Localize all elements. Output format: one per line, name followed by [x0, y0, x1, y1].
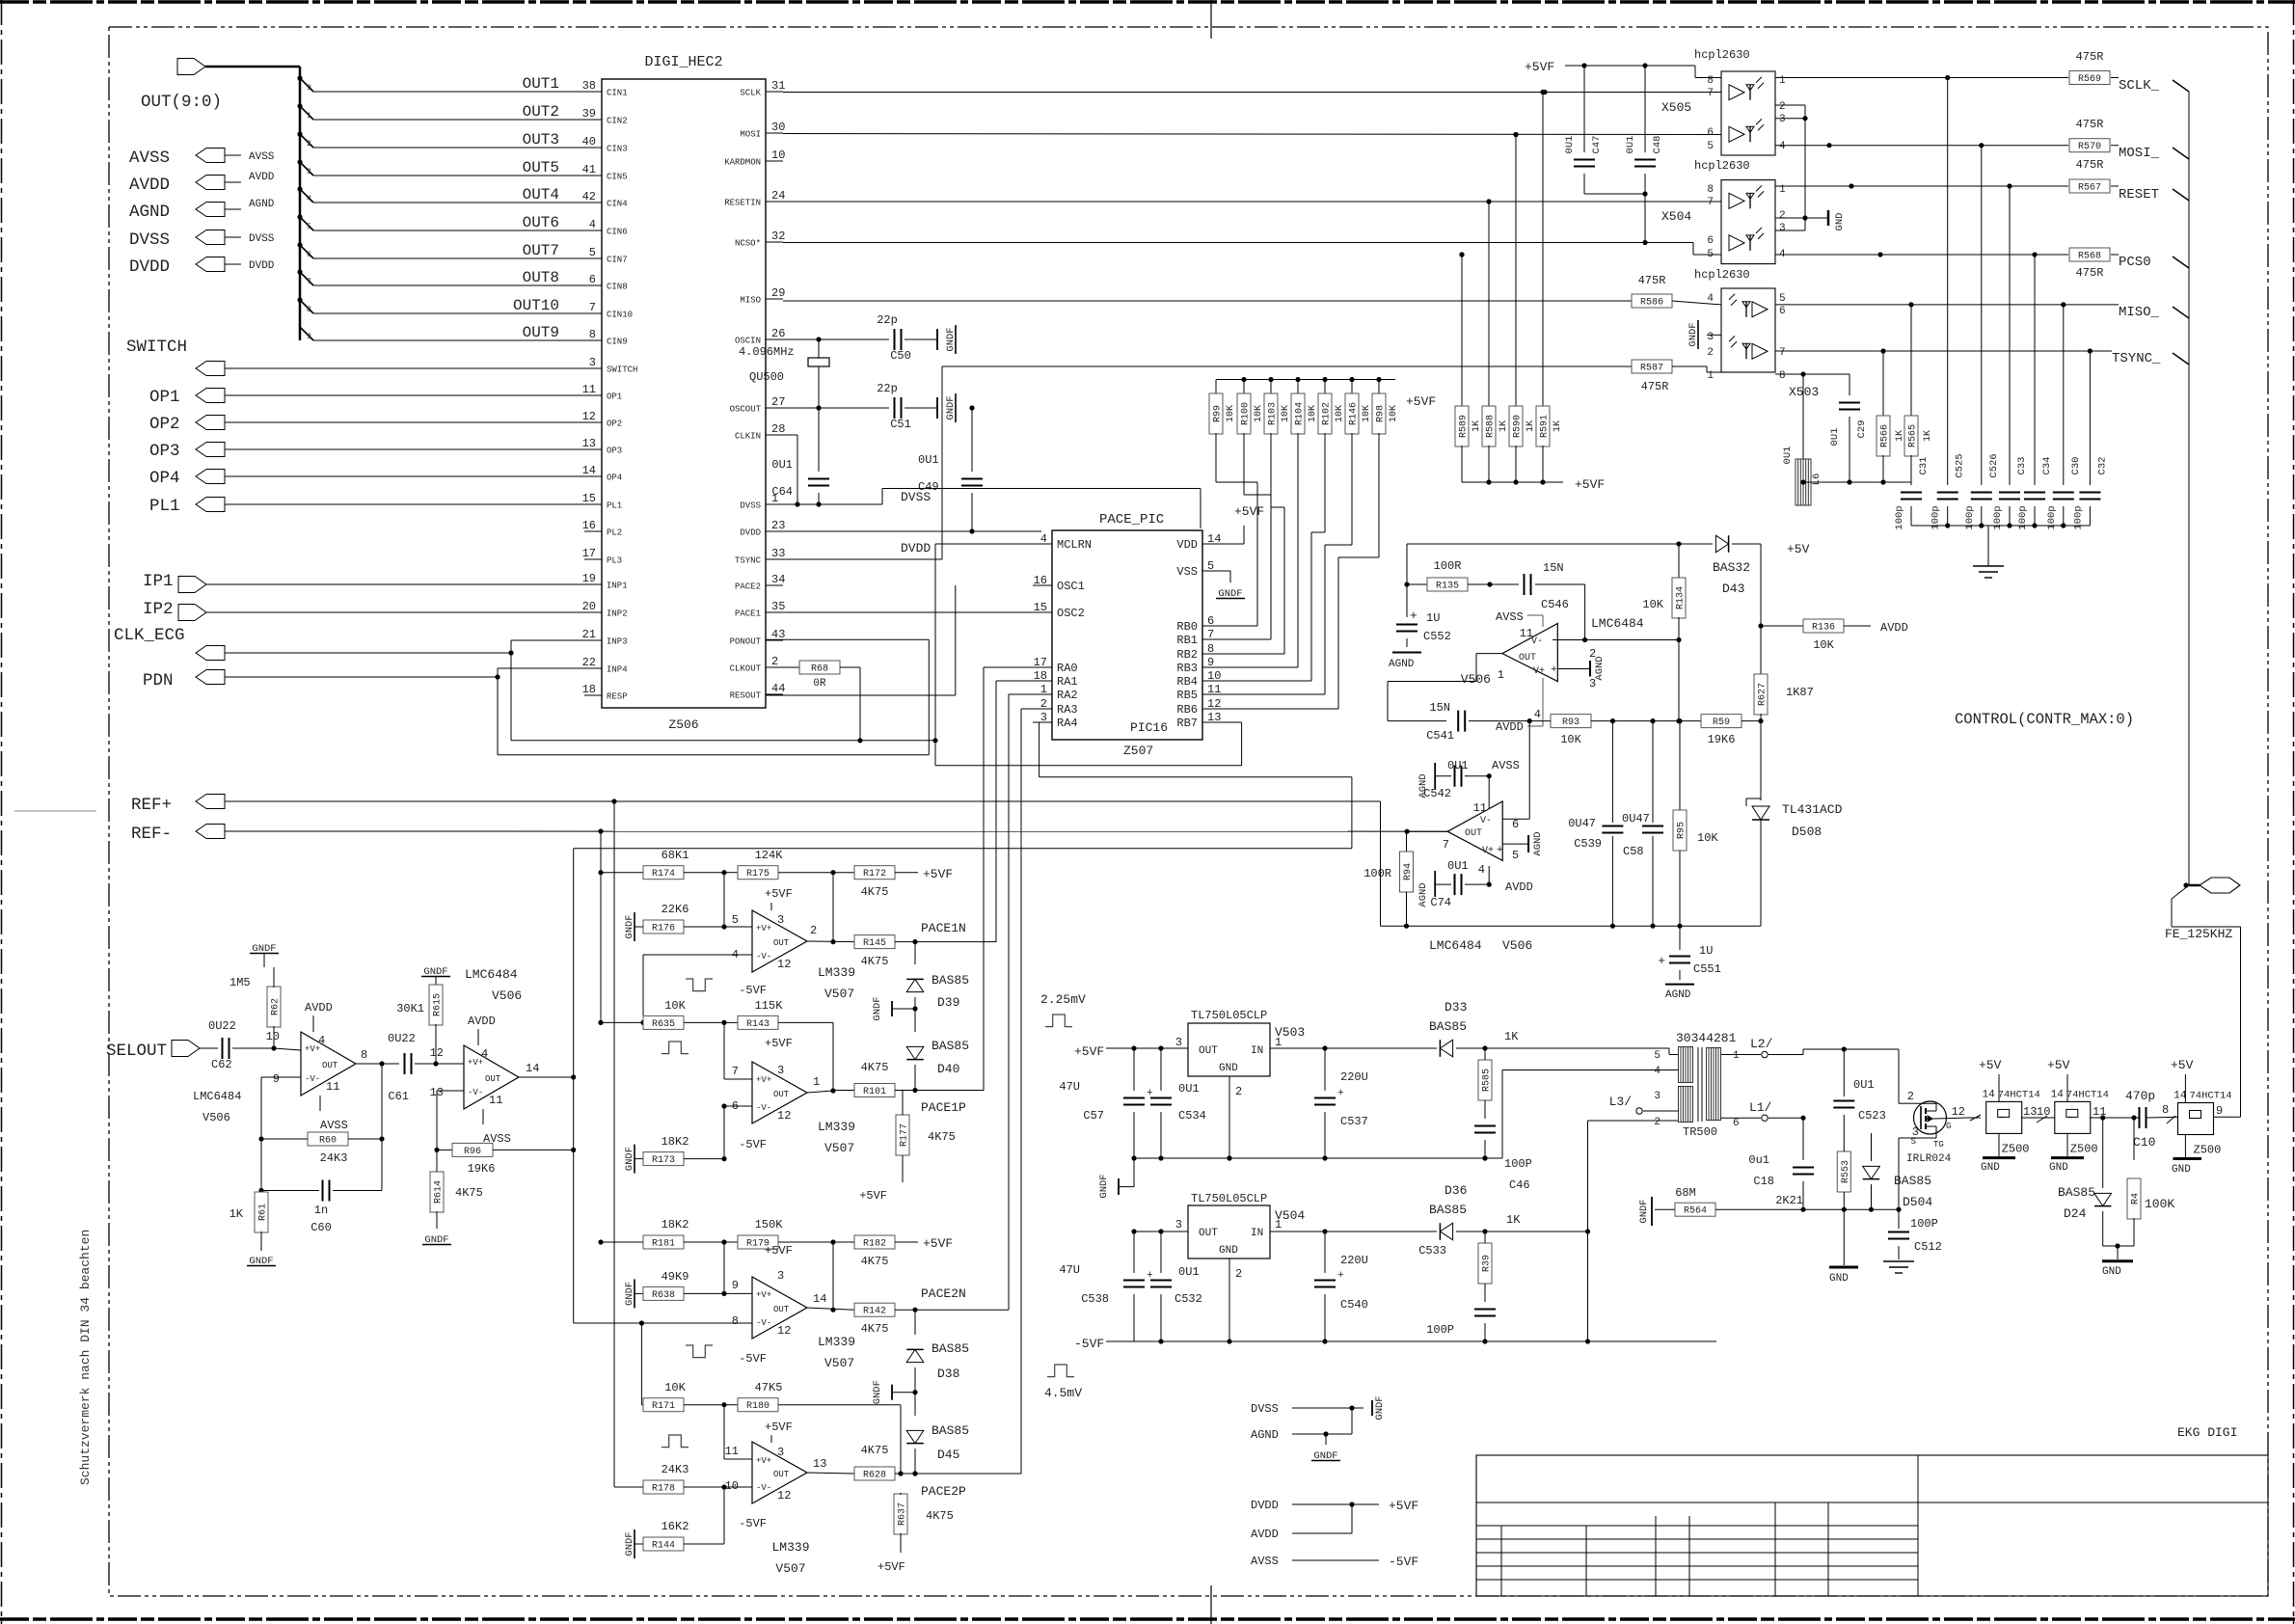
- svg-text:OUT4: OUT4: [523, 186, 559, 203]
- svg-text:AVSS: AVSS: [1496, 610, 1524, 624]
- wire DVDD net: [766, 531, 1041, 555]
- svg-text:30344281: 30344281: [1676, 1031, 1737, 1045]
- svg-text:PONOUT: PONOUT: [730, 637, 762, 647]
- wire gate a out: [2021, 1105, 2055, 1123]
- svg-text:R587: R587: [1640, 364, 1663, 374]
- svg-text:+: +: [1658, 954, 1665, 968]
- Z506 pin 10 KARDMON: [724, 149, 785, 168]
- svg-text:hcpl2630: hcpl2630: [1694, 48, 1750, 62]
- svg-text:RB4: RB4: [1176, 675, 1198, 689]
- svg-text:DVDD: DVDD: [1251, 1499, 1279, 1512]
- svg-text:100K: 100K: [2145, 1197, 2174, 1211]
- resistor R637 4K75: [877, 1472, 954, 1574]
- svg-text:+5VF: +5VF: [765, 1244, 793, 1258]
- svg-text:AVDD: AVDD: [305, 1001, 333, 1015]
- resistor R614 4K75: [422, 1150, 483, 1246]
- label +5VF pin3 c: [765, 1244, 793, 1283]
- resistor R59 19K6: [1701, 715, 1761, 746]
- svg-text:GND: GND: [2049, 1162, 2068, 1174]
- svg-text:C538: C538: [1081, 1292, 1109, 1306]
- svg-text:3: 3: [777, 913, 784, 927]
- svg-text:DVDD: DVDD: [901, 541, 931, 555]
- svg-text:4: 4: [1779, 141, 1786, 152]
- svg-text:3: 3: [589, 356, 596, 369]
- svg-text:0R: 0R: [813, 678, 826, 690]
- svg-text:Z500: Z500: [2194, 1144, 2222, 1157]
- svg-text:TR500: TR500: [1683, 1125, 1717, 1139]
- svg-text:AGND: AGND: [1251, 1428, 1279, 1442]
- svg-text:+5VF: +5VF: [1389, 1499, 1418, 1513]
- svg-text:10K: 10K: [1362, 405, 1372, 422]
- wire R134 junction to R93 row: [1676, 640, 1681, 724]
- capacitor C74 0U1: [1417, 859, 1533, 909]
- svg-text:0U22: 0U22: [388, 1032, 416, 1045]
- svg-text:12: 12: [777, 1489, 791, 1502]
- svg-text:DVSS: DVSS: [129, 230, 170, 250]
- svg-text:11: 11: [582, 383, 596, 396]
- svg-text:R172: R172: [863, 869, 886, 880]
- svg-text:3: 3: [777, 1269, 784, 1283]
- svg-text:R135: R135: [1436, 582, 1459, 592]
- capacitor C48: [1625, 66, 1663, 194]
- svg-text:9: 9: [1207, 656, 1214, 669]
- svg-text:5: 5: [732, 913, 739, 927]
- svg-text:31: 31: [771, 79, 785, 93]
- capacitor C551 1U: [1658, 926, 1721, 1001]
- resistor R179 150K: [724, 1218, 836, 1250]
- connector AGND: [129, 199, 275, 222]
- svg-text:10K: 10K: [664, 1381, 686, 1394]
- Z506 pin 44 RESOUT: [730, 682, 786, 701]
- Z506 pin 15 PL1: [582, 492, 623, 511]
- svg-text:+5VF: +5VF: [923, 1236, 953, 1251]
- svg-text:100p: 100p: [1992, 505, 2004, 529]
- Z506 pin 43 PONOUT: [730, 628, 786, 647]
- svg-text:R136: R136: [1812, 623, 1835, 634]
- svg-text:GND: GND: [1834, 213, 1846, 231]
- svg-text:14: 14: [2051, 1089, 2065, 1100]
- wire RB7 net: [932, 544, 1241, 766]
- svg-text:D504: D504: [1903, 1195, 1932, 1209]
- svg-text:RB2: RB2: [1176, 648, 1198, 662]
- svg-text:LM339: LM339: [818, 1120, 855, 1134]
- Z507 pin 1 RA2: [1033, 683, 1078, 702]
- svg-text:C525: C525: [1955, 453, 1966, 477]
- svg-text:14: 14: [582, 464, 596, 477]
- svg-text:R93: R93: [1562, 717, 1579, 728]
- svg-text:IN: IN: [1251, 1228, 1263, 1239]
- svg-text:38: 38: [582, 79, 596, 93]
- svg-text:OSCIN: OSCIN: [735, 337, 761, 346]
- svg-text:-5VF: -5VF: [739, 984, 767, 997]
- svg-text:RA0: RA0: [1057, 662, 1078, 675]
- svg-text:OUT: OUT: [1465, 828, 1482, 839]
- svg-text:GNDF: GNDF: [1374, 1395, 1386, 1420]
- resistor R145 4K75: [854, 921, 996, 968]
- Z507 pin 2 RA3: [1033, 697, 1078, 717]
- svg-text:Z500: Z500: [2070, 1142, 2098, 1155]
- svg-text:C33: C33: [2016, 457, 2028, 475]
- resistor R173 18K2: [624, 1135, 727, 1174]
- rail AVDD tie: [1251, 1504, 1352, 1541]
- svg-text:1K: 1K: [1506, 1213, 1521, 1227]
- resistor R103: [1264, 377, 1291, 434]
- svg-text:47U: 47U: [1059, 1080, 1080, 1094]
- svg-text:NCSO*: NCSO*: [735, 239, 761, 249]
- svg-text:30: 30: [771, 121, 785, 134]
- svg-text:+5VF: +5VF: [1234, 504, 1264, 519]
- gndf D39: [872, 996, 915, 1020]
- svg-text:TL750L05CLP: TL750L05CLP: [1191, 1009, 1267, 1022]
- svg-text:8: 8: [1707, 75, 1714, 87]
- svg-text:1: 1: [1275, 1036, 1282, 1049]
- svg-text:C60: C60: [310, 1221, 332, 1234]
- left margin mark: [14, 810, 96, 812]
- rail AVSS -5VF: [1251, 1555, 1418, 1569]
- svg-text:OP2: OP2: [607, 420, 622, 429]
- svg-text:0U47: 0U47: [1622, 812, 1650, 826]
- Z506 pin 1 DVSS: [740, 492, 783, 511]
- svg-text:GND: GND: [2172, 1164, 2191, 1176]
- svg-text:AVSS: AVSS: [1492, 759, 1520, 772]
- capacitor C32 100p: [2072, 351, 2108, 530]
- rail DVDD +5VF: [1251, 1499, 1418, 1513]
- svg-text:41: 41: [582, 163, 596, 176]
- connector AVSS: [129, 149, 275, 169]
- Z506 pin 39 CIN2: [582, 107, 628, 126]
- Z506 pin 3 SWITCH: [584, 356, 637, 375]
- net OUT8: [297, 269, 584, 286]
- svg-text:14: 14: [2173, 1091, 2187, 1102]
- Z506 pin 38 CIN1: [582, 79, 628, 98]
- svg-text:OP1: OP1: [149, 388, 180, 407]
- svg-text:5: 5: [589, 246, 596, 259]
- bus OUT arrow: [177, 59, 300, 75]
- svg-text:+5V: +5V: [1787, 542, 1810, 556]
- svg-text:5: 5: [307, 223, 311, 231]
- svg-text:R146: R146: [1349, 402, 1360, 425]
- resistor R180 47K5: [724, 1381, 901, 1472]
- svg-text:475R: 475R: [2076, 266, 2104, 280]
- svg-text:OSCOUT: OSCOUT: [730, 405, 762, 415]
- svg-text:BAS85: BAS85: [931, 1039, 969, 1053]
- wire TR pin4 to gnd: [1502, 1070, 1679, 1159]
- resistor R181 18K2: [598, 1218, 726, 1250]
- Z506 pin 19 INP1: [582, 572, 628, 591]
- svg-text:1K: 1K: [1895, 430, 1905, 442]
- svg-text:REF+: REF+: [131, 796, 172, 815]
- svg-text:CONTROL(CONTR_MAX:0): CONTROL(CONTR_MAX:0): [1955, 711, 2134, 728]
- resistor R174 68K1: [598, 849, 726, 880]
- resistor R95 10K: [1673, 721, 1718, 929]
- svg-text:TSYNC_: TSYNC_: [2112, 351, 2161, 366]
- svg-text:23: 23: [771, 519, 785, 532]
- svg-text:1K: 1K: [1525, 420, 1536, 432]
- svg-text:RESOUT: RESOUT: [730, 691, 762, 701]
- connector OP1: [149, 388, 584, 407]
- wire +5VF rail: [1581, 63, 1721, 77]
- svg-text:RB6: RB6: [1176, 703, 1198, 717]
- svg-text:GNDF: GNDF: [872, 1380, 883, 1404]
- connector DVSS: [129, 230, 275, 251]
- wire pin7 from R635: [724, 1022, 752, 1079]
- svg-text:RB3: RB3: [1176, 662, 1198, 675]
- svg-text:LM339: LM339: [818, 965, 855, 980]
- wire MOSI: [783, 132, 1721, 137]
- svg-text:R100: R100: [1241, 402, 1252, 425]
- svg-text:+5VF: +5VF: [765, 1037, 793, 1050]
- Z506 pin 2 CLKOUT: [730, 655, 783, 674]
- svg-text:PL2: PL2: [607, 528, 622, 538]
- svg-text:74HCT14: 74HCT14: [2190, 1091, 2232, 1102]
- svg-text:-5VF: -5VF: [1074, 1337, 1104, 1351]
- svg-text:0U1: 0U1: [771, 458, 793, 472]
- svg-text:RESP: RESP: [607, 692, 628, 702]
- svg-text:R39: R39: [1482, 1255, 1493, 1272]
- svg-text:INP3: INP3: [607, 637, 628, 647]
- svg-text:C534: C534: [1178, 1109, 1206, 1123]
- svg-text:-5VF: -5VF: [1389, 1555, 1418, 1569]
- diode D36 BAS85: [1406, 1183, 1488, 1240]
- svg-text:AVSS: AVSS: [1251, 1555, 1279, 1568]
- svg-text:2: 2: [1235, 1267, 1242, 1281]
- svg-text:10K: 10K: [1642, 598, 1663, 611]
- svg-text:CLKIN: CLKIN: [735, 432, 761, 442]
- svg-text:C512: C512: [1914, 1240, 1942, 1254]
- gnd mid bus: [1134, 1155, 1502, 1160]
- svg-text:OP3: OP3: [607, 447, 622, 456]
- Z506 pin 18 RESP: [582, 683, 628, 702]
- wire RA1: [996, 681, 1052, 942]
- svg-text:RB5: RB5: [1176, 689, 1198, 702]
- resistor R615 30K1: [396, 985, 443, 1064]
- svg-text:OUT9: OUT9: [523, 324, 559, 341]
- gate Z500 a: [1952, 1089, 2040, 1155]
- gndf C51: [937, 393, 957, 422]
- svg-text:R98: R98: [1376, 405, 1387, 422]
- svg-text:2.25mV: 2.25mV: [1040, 992, 1086, 1007]
- resistor R638 49K9: [624, 1270, 752, 1308]
- wire TR pin2: [1678, 1120, 1680, 1122]
- svg-text:+: +: [1497, 845, 1503, 856]
- resistor R172 4K75: [833, 866, 953, 899]
- wire X503 pin8 to L6: [1775, 374, 1803, 459]
- svg-text:4.5mV: 4.5mV: [1044, 1386, 1082, 1400]
- resistor R39 1K: [1418, 1213, 1521, 1344]
- svg-text:R591: R591: [1540, 415, 1551, 438]
- label LMC6484 V506 bottom: [1429, 938, 1532, 953]
- svg-text:X505: X505: [1661, 100, 1691, 115]
- svg-text:V+: V+: [1482, 846, 1494, 856]
- svg-text:PDN: PDN: [143, 671, 174, 690]
- wire TR pin6 L1: [1721, 1100, 1806, 1121]
- svg-text:INP1: INP1: [607, 582, 628, 591]
- svg-text:1: 1: [1733, 1050, 1740, 1062]
- wire 100p gnd bus: [1911, 523, 2090, 566]
- gndf X503: [1687, 320, 1721, 349]
- svg-text:CIN5: CIN5: [607, 173, 628, 182]
- svg-text:3: 3: [777, 1064, 784, 1077]
- svg-text:GNDF: GNDF: [1638, 1199, 1650, 1223]
- svg-text:-V-: -V-: [756, 952, 771, 961]
- bus OUT vertical: [299, 67, 302, 340]
- label TSYNC_: [2112, 351, 2189, 366]
- shunt TL431ACD D508: [1746, 721, 1843, 927]
- pulse 2.25mV: [1040, 992, 1086, 1027]
- svg-text:1: 1: [1498, 668, 1504, 682]
- svg-text:+V+: +V+: [756, 1290, 771, 1300]
- resistor R569: [2069, 50, 2119, 85]
- net OUT7: [297, 242, 584, 259]
- resistor R553 2K21: [1775, 1133, 1851, 1209]
- svg-text:9: 9: [732, 1279, 739, 1292]
- wire RA3: [1021, 709, 1052, 1474]
- svg-text:R588: R588: [1486, 415, 1497, 438]
- svg-text:CIN7: CIN7: [607, 256, 628, 265]
- svg-text:2: 2: [1654, 1117, 1660, 1128]
- rail DVSS-GNDF: [1251, 1402, 1372, 1434]
- svg-text:3: 3: [1707, 332, 1714, 343]
- svg-text:MOSI: MOSI: [740, 130, 761, 140]
- svg-text:LMC6484: LMC6484: [1591, 616, 1644, 631]
- opamp V506d: [430, 1015, 519, 1146]
- pulse 4.5mV: [1044, 1365, 1082, 1400]
- svg-text:MISO_: MISO_: [2119, 305, 2160, 320]
- net OUT6: [297, 214, 584, 231]
- svg-text:22K6: 22K6: [661, 903, 689, 916]
- svg-text:CIN9: CIN9: [607, 338, 628, 347]
- svg-text:R614: R614: [434, 1180, 445, 1204]
- svg-text:R566: R566: [1880, 424, 1891, 447]
- connector CLK_ECG: [114, 626, 584, 661]
- svg-text:R142: R142: [863, 1307, 886, 1317]
- svg-text:CIN6: CIN6: [607, 228, 628, 237]
- svg-text:R134: R134: [1676, 586, 1687, 609]
- Z506 pin 32 NCSO*: [735, 230, 785, 249]
- svg-text:5: 5: [1207, 559, 1214, 573]
- svg-text:OUT6: OUT6: [523, 214, 559, 231]
- wire R174-R176 vertical: [723, 873, 725, 927]
- svg-text:AVDD: AVDD: [1251, 1528, 1279, 1541]
- resistor R589 1K: [1455, 252, 1482, 482]
- svg-text:5: 5: [1512, 849, 1519, 862]
- svg-text:R104: R104: [1295, 402, 1306, 425]
- label -5VF reg: [1074, 1337, 1134, 1351]
- svg-text:7: 7: [307, 278, 311, 286]
- svg-text:V506: V506: [1502, 938, 1532, 953]
- svg-text:4K75: 4K75: [861, 1444, 889, 1457]
- wire gate node: [1844, 1132, 1871, 1134]
- svg-text:1K: 1K: [229, 1207, 244, 1221]
- svg-text:6: 6: [307, 251, 311, 259]
- svg-text:10K: 10K: [1389, 405, 1399, 422]
- svg-text:R181: R181: [652, 1239, 675, 1250]
- capacitor C62 0U22: [208, 1019, 277, 1071]
- svg-text:DIGI_HEC2: DIGI_HEC2: [644, 54, 722, 70]
- svg-text:7: 7: [1443, 838, 1449, 852]
- wire control top: [1407, 541, 1713, 546]
- svg-text:MISO: MISO: [740, 296, 761, 306]
- svg-text:470p: 470p: [2125, 1089, 2155, 1103]
- svg-text:44: 44: [771, 682, 785, 695]
- label LMC6484 a: [1591, 616, 1644, 631]
- connector IP1: [143, 572, 584, 593]
- wire V506b V- pin6: [1502, 721, 1529, 820]
- label MISO_: [2119, 305, 2189, 320]
- capacitor C10 470p: [2125, 1089, 2178, 1150]
- svg-text:1K: 1K: [1498, 420, 1509, 432]
- svg-text:0U1: 0U1: [1782, 447, 1794, 465]
- Z506 pin 20 INP2: [582, 600, 628, 619]
- border right edge: [2293, 0, 2295, 1624]
- gndf D38: [872, 1380, 915, 1404]
- gndf R615: [421, 966, 450, 986]
- svg-text:16: 16: [1034, 574, 1047, 587]
- svg-text:TL431ACD: TL431ACD: [1782, 802, 1843, 817]
- svg-text:10K: 10K: [1697, 831, 1718, 845]
- svg-text:GND: GND: [1219, 1245, 1238, 1257]
- gate a gnd: [1981, 1134, 2015, 1174]
- svg-text:OP4: OP4: [149, 469, 180, 488]
- capacitor C542 0U1: [1417, 759, 1492, 800]
- label +5VF top: [1525, 60, 1584, 74]
- svg-text:D45: D45: [937, 1448, 959, 1462]
- wire V503 in: [1270, 1045, 1406, 1050]
- wire bottom bus primary: [1800, 1207, 1901, 1212]
- resistor R134 10K: [1642, 544, 1686, 642]
- svg-text:12: 12: [777, 958, 791, 971]
- resistor R101 4K75: [854, 1061, 984, 1115]
- svg-text:10K: 10K: [1335, 405, 1345, 422]
- svg-text:OUT: OUT: [322, 1061, 338, 1070]
- svg-text:5: 5: [1779, 293, 1786, 305]
- svg-text:IP1: IP1: [143, 572, 174, 591]
- svg-text:2: 2: [1779, 101, 1786, 113]
- resistor R182 4K75: [833, 1235, 953, 1268]
- svg-text:8: 8: [361, 1048, 367, 1062]
- wire OSCOUT: [783, 405, 889, 410]
- svg-text:IRLR024: IRLR024: [1906, 1153, 1952, 1165]
- regulator V503 TL750L05CLP: [1175, 1009, 1305, 1098]
- svg-text:PACE1P: PACE1P: [921, 1100, 966, 1115]
- svg-text:11: 11: [489, 1094, 502, 1107]
- svg-text:PACE2P: PACE2P: [921, 1484, 966, 1499]
- Z506 pin 30 MOSI: [740, 121, 785, 140]
- svg-text:1: 1: [1275, 1218, 1282, 1232]
- svg-text:FE_125KHZ: FE_125KHZ: [2165, 927, 2232, 941]
- svg-text:OUT: OUT: [773, 1305, 790, 1314]
- svg-text:3: 3: [1175, 1218, 1182, 1232]
- wire drain: [1914, 1102, 1936, 1104]
- Z507 pin 3 RA4: [1033, 711, 1078, 730]
- net OUT10: [297, 297, 584, 314]
- gate a +5V: [1979, 1058, 2002, 1101]
- resistor R61 1K: [229, 1188, 276, 1267]
- transformer TR500 label: [1676, 1031, 1737, 1045]
- svg-text:1: 1: [1707, 370, 1714, 382]
- wire D33 to TR pin5: [1485, 1048, 1679, 1055]
- svg-text:C51: C51: [890, 418, 911, 431]
- svg-text:R103: R103: [1268, 402, 1279, 425]
- svg-text:+5V: +5V: [1979, 1058, 2002, 1072]
- svg-text:RA2: RA2: [1057, 689, 1078, 702]
- Z507 pin 5 VSS: [1176, 559, 1222, 579]
- opamp V507a: [732, 887, 855, 1001]
- resistor R99: [1209, 380, 1236, 435]
- svg-text:C64: C64: [771, 485, 793, 499]
- svg-text:L1/: L1/: [1749, 1100, 1772, 1115]
- svg-text:4K75: 4K75: [928, 1130, 956, 1144]
